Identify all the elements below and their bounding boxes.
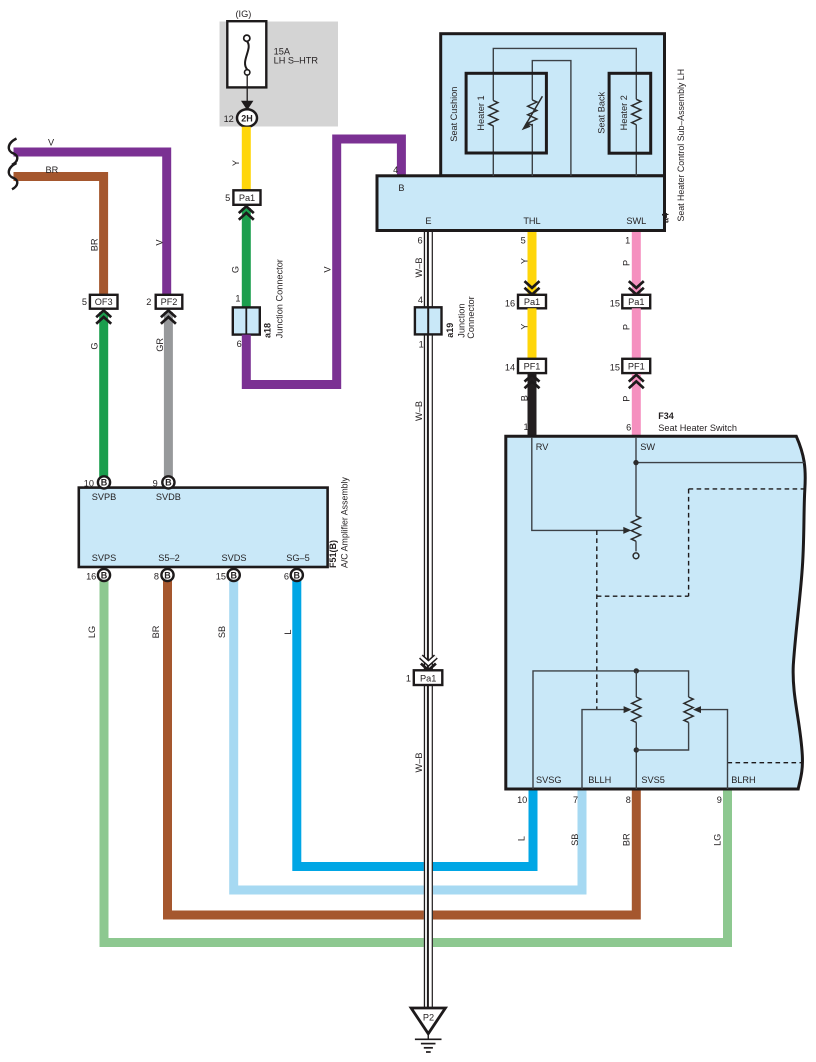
svg-text:7: 7 (573, 795, 578, 805)
pin 16 (B) (98, 569, 110, 581)
ground P2 (411, 1008, 445, 1052)
connector Pa1 pin 16 (518, 295, 546, 309)
svg-text:SVS5: SVS5 (641, 775, 665, 785)
wire V (violet) from left harness to PF2 (14, 152, 167, 295)
svg-text:a19: a19 (445, 323, 455, 338)
switch internal: SW line (635, 437, 637, 516)
svg-text:PF1: PF1 (628, 362, 645, 372)
dashed link horizontal (597, 595, 689, 597)
svg-text:1: 1 (625, 236, 630, 246)
wire V (violet) a18 to a4 pin 4 (246, 139, 401, 385)
svg-text:P: P (621, 396, 631, 402)
svg-text:L: L (283, 629, 293, 634)
svg-text:Pa1: Pa1 (239, 193, 255, 203)
svg-text:16: 16 (505, 298, 515, 308)
svg-text:BLLH: BLLH (588, 775, 611, 785)
svg-text:1: 1 (406, 674, 411, 684)
svg-text:Pa1: Pa1 (524, 297, 540, 307)
svg-text:9: 9 (717, 795, 722, 805)
svg-text:15: 15 (610, 298, 620, 308)
thermistor (variable resistor) (528, 100, 537, 125)
wire Y (yellow) Pa1 to PF1 (528, 308, 537, 359)
switch internal: RV line (532, 437, 625, 530)
connector 2H pin 12 (237, 109, 257, 127)
dashed link lower right edge (728, 762, 802, 764)
svg-text:G: G (230, 266, 240, 273)
dashed link to right edge (689, 488, 806, 490)
svg-text:W–B: W–B (414, 258, 424, 278)
svg-text:(IG): (IG) (236, 9, 252, 19)
svg-text:B: B (520, 395, 530, 401)
pin 8 (B) (161, 569, 173, 581)
potentiometer lower right (684, 697, 693, 722)
svg-text:P: P (621, 260, 631, 266)
resistor heater 1 (489, 101, 498, 126)
pin 15 (B) (228, 569, 240, 581)
svg-text:4: 4 (393, 165, 398, 175)
wiper BLLH into lower-left pot (582, 710, 625, 789)
svg-text:12: 12 (224, 114, 234, 124)
connector Pa1 pin 5 (233, 190, 260, 205)
Heater 2 box (609, 73, 651, 153)
svg-text:SB: SB (217, 626, 227, 638)
svg-text:V: V (48, 138, 55, 148)
svg-text:6: 6 (626, 422, 631, 432)
fuse block panel (gray) (220, 22, 339, 127)
svg-text:1: 1 (523, 422, 528, 432)
wire break squiggle (BR) (9, 163, 18, 189)
Seat Heater Control Sub-Assembly LH (a4) upper box (441, 34, 665, 176)
wire SB (sky blue) amp pin 15 to switch pin 7 (234, 581, 582, 891)
wire G (green) OF3 to A/C amp pin 10 (99, 312, 108, 478)
dashed link vertical right (688, 489, 690, 596)
svg-text:LG: LG (712, 834, 722, 846)
wire P (pink) PF1 to switch pin 6 (632, 374, 641, 436)
junction dot bottom (634, 747, 639, 752)
svg-text:F34: F34 (658, 411, 674, 421)
connector PF1 pin 14 (518, 359, 546, 373)
svg-text:BLRH: BLRH (731, 775, 756, 785)
svg-text:6: 6 (417, 236, 422, 246)
junction connector a18 (233, 259, 284, 338)
internal wire heater2 bottom (635, 125, 637, 176)
svg-text:Y: Y (520, 324, 530, 330)
wire P (pink) Pa1 to PF1 (632, 308, 641, 359)
svg-text:10: 10 (517, 795, 527, 805)
svg-text:5: 5 (225, 193, 230, 203)
wire W-B from a4 pin E to ground (white band) (424, 232, 433, 1008)
svg-text:SW: SW (640, 442, 655, 452)
connector Pa1 pin 15 (622, 295, 650, 309)
wire B (black) PF1 to switch pin 1 (528, 374, 537, 436)
svg-text:4: 4 (418, 295, 423, 305)
svg-text:a18: a18 (262, 323, 272, 338)
svg-text:5: 5 (82, 297, 87, 307)
internal wire heater1 bottom (492, 126, 494, 176)
svg-text:OF3: OF3 (95, 297, 113, 307)
wire G (green) Pa1 to a18 (242, 208, 251, 308)
wire GR (gray) PF2 to A/C amp pin 9 (164, 312, 173, 478)
svg-text:8: 8 (626, 795, 631, 805)
wire break squiggle (V) (9, 139, 18, 165)
SW line to right edge (636, 462, 805, 464)
svg-text:6: 6 (237, 339, 242, 349)
svg-text:P: P (621, 324, 631, 330)
svg-text:P2: P2 (423, 1012, 434, 1022)
switch internal: SVSG branch (533, 671, 689, 789)
svg-text:L: L (517, 836, 527, 841)
svg-text:a4: a4 (660, 213, 670, 223)
svg-text:Seat Back: Seat Back (597, 91, 607, 133)
Heater 1 box (466, 73, 546, 153)
svg-text:A/C Amplifier Assembly: A/C Amplifier Assembly (340, 476, 350, 568)
svg-text:Heater 1: Heater 1 (476, 95, 486, 130)
svg-text:B: B (398, 183, 404, 193)
svg-text:SVPB: SVPB (92, 492, 117, 502)
junction connector a19 (415, 296, 476, 338)
svg-text:14: 14 (505, 363, 515, 373)
svg-text:15: 15 (216, 572, 226, 582)
pin 9 (B) (162, 476, 174, 488)
wire W-B black stripe middle (427, 232, 429, 1008)
svg-text:S5–2: S5–2 (158, 553, 179, 563)
svg-text:SVPS: SVPS (92, 553, 117, 563)
svg-text:SVDB: SVDB (156, 492, 181, 502)
svg-text:Junction Connector: Junction Connector (274, 259, 284, 338)
svg-text:LH S–HTR: LH S–HTR (274, 55, 319, 65)
svg-text:1: 1 (235, 294, 240, 304)
svg-text:RV: RV (536, 442, 549, 452)
connector PF2 pin 2 (156, 295, 183, 309)
svg-text:G: G (90, 343, 100, 350)
svg-text:Y: Y (520, 258, 530, 264)
connector PF1 pin 15 (622, 359, 650, 373)
wiper BLRH into lower-right pot (700, 710, 728, 789)
svg-text:9: 9 (153, 479, 158, 489)
svg-text:SVSG: SVSG (536, 775, 562, 785)
wire W-B black edge left (423, 232, 425, 1008)
svg-text:SG–5: SG–5 (286, 553, 310, 563)
svg-text:Seat Cushion: Seat Cushion (449, 87, 459, 142)
svg-text:15: 15 (610, 363, 620, 373)
svg-text:SWL: SWL (626, 216, 646, 226)
svg-text:Pa1: Pa1 (628, 297, 644, 307)
A/C Amplifier Assembly F51(B) (79, 476, 350, 568)
svg-text:Seat Heater Switch: Seat Heater Switch (658, 423, 737, 433)
junction dot SW (633, 460, 638, 465)
svg-text:SB: SB (570, 834, 580, 846)
pin 6 (B) (291, 569, 303, 581)
svg-text:Junction: Junction (457, 303, 467, 337)
svg-text:W–B: W–B (414, 401, 424, 421)
connector OF3 pin 5 (90, 295, 118, 309)
internal wire thermistor top to THL (532, 61, 571, 176)
svg-text:W–B: W–B (414, 753, 424, 773)
svg-text:Pa1: Pa1 (420, 673, 436, 683)
svg-text:GR: GR (155, 338, 165, 352)
fuse 15A LH S-HTR (227, 21, 318, 87)
svg-text:V: V (155, 239, 165, 246)
wire Y (yellow) THL to Pa1 (528, 232, 537, 295)
svg-text:Connector: Connector (466, 296, 476, 338)
svg-text:SVDS: SVDS (221, 553, 246, 563)
junction dot top of SVS5 pot (634, 668, 639, 673)
svg-text:THL: THL (523, 216, 540, 226)
dashed mechanical link (wiper to wiper) (596, 530, 598, 709)
svg-text:E: E (425, 216, 431, 226)
svg-text:Y: Y (231, 160, 241, 166)
wire P (pink) SWL to Pa1 (632, 232, 641, 295)
svg-text:BR: BR (151, 625, 161, 638)
svg-text:PF1: PF1 (524, 362, 541, 372)
potentiometer lower left (635, 671, 637, 697)
svg-text:2: 2 (146, 297, 151, 307)
svg-text:2H: 2H (241, 113, 253, 123)
svg-text:BR: BR (46, 165, 59, 175)
wire LG (light green) amp pin 16 to switch pin 9 (104, 581, 728, 943)
resistor heater 2 (632, 99, 641, 124)
chevrons down into Pa1 (hollow + solid) (421, 657, 436, 671)
svg-text:10: 10 (84, 479, 94, 489)
internal wire thermistor bottom (531, 124, 533, 176)
svg-text:8: 8 (154, 572, 159, 582)
open contact circle (633, 553, 639, 559)
pin 10 (B) (98, 476, 110, 488)
wire BR (brown) from left harness to OF3 (14, 177, 104, 295)
svg-text:Seat Heater Control Sub–Assemb: Seat Heater Control Sub–Assembly LH (676, 69, 686, 222)
svg-text:1: 1 (419, 340, 424, 350)
wire Y (yellow) fuse to Pa1 (242, 127, 251, 191)
internal wire heater1 top to heater2 top (493, 48, 636, 100)
svg-text:16: 16 (86, 572, 96, 582)
svg-text:F51(B): F51(B) (328, 540, 338, 568)
svg-text:V: V (323, 266, 333, 273)
wire W-B black edge right (431, 232, 433, 1008)
wiper arrow upper pot (623, 527, 631, 534)
a4 lower connector box (377, 176, 665, 231)
svg-text:PF2: PF2 (161, 297, 178, 307)
wire L (blue) amp pin 6 to switch pin 10 (297, 581, 533, 867)
svg-text:6: 6 (284, 572, 289, 582)
svg-text:5: 5 (521, 236, 526, 246)
wire BR (brown) amp pin 8 to switch pin 8 (168, 581, 637, 916)
wire from fuse to 2H (246, 75, 248, 102)
svg-text:Heater 2: Heater 2 (619, 95, 629, 130)
svg-text:LG: LG (87, 626, 97, 638)
potentiometer upper (RV) (631, 516, 640, 541)
connector Pa1 pin 1 (414, 670, 443, 685)
svg-text:BR: BR (622, 833, 632, 846)
Seat Heater Switch F34 box (506, 411, 805, 789)
svg-text:BR: BR (90, 238, 100, 251)
